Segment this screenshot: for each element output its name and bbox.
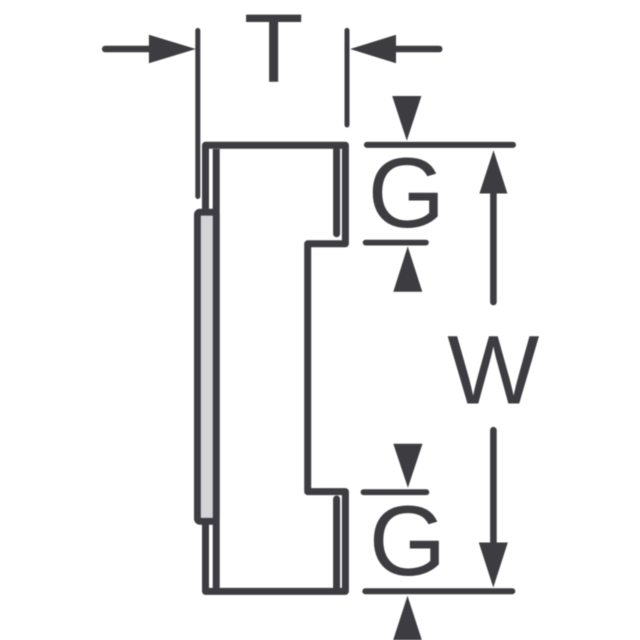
svg-text:G: G bbox=[369, 486, 446, 597]
arrowhead W up bbox=[479, 150, 507, 193]
dimension line G top lower bbox=[366, 240, 426, 246]
extension line T right bbox=[345, 30, 350, 125]
svg-text:G: G bbox=[368, 138, 445, 249]
arrowhead T left bbox=[149, 35, 196, 63]
arrowhead G top up bbox=[393, 246, 422, 291]
arrowhead G top down bbox=[392, 96, 421, 141]
extension line T left bbox=[195, 31, 200, 197]
arrowhead T right bbox=[350, 35, 396, 63]
arrow W shaft upper bbox=[490, 189, 497, 302]
arrowhead G bottom up bbox=[393, 596, 422, 640]
arrowhead W down bbox=[479, 543, 508, 588]
dimension line G bottom upper bbox=[364, 489, 427, 495]
electrode plate bbox=[197, 212, 216, 521]
body outline bbox=[206, 145, 346, 591]
inner wall line left bbox=[213, 149, 220, 588]
inner wall line right lower bbox=[333, 499, 340, 588]
dimension line G bottom lower bbox=[365, 588, 512, 594]
svg-text:W: W bbox=[447, 316, 539, 425]
arrow T right tail bbox=[396, 46, 439, 53]
inner wall line right upper bbox=[333, 149, 340, 234]
arrowhead G bottom down bbox=[393, 444, 422, 488]
arrow W shaft lower bbox=[490, 430, 497, 546]
dimension line G top upper bbox=[367, 142, 513, 148]
svg-text:T: T bbox=[244, 0, 304, 102]
arrow T left tail bbox=[105, 46, 150, 53]
